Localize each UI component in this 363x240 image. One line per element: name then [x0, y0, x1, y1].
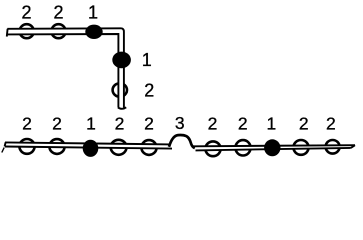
filled bead 1 (bottom 3) [83, 140, 99, 157]
kink 3 (bump) [169, 135, 195, 148]
top chain rod with elbow [7, 28, 126, 109]
svg-text:2: 2 [115, 113, 125, 133]
bottom chain left rod [2, 142, 172, 152]
bottom right rod white channel [193, 145, 356, 150]
filled bead 1 (vertical rod) [112, 52, 131, 69]
svg-text:3: 3 [175, 113, 185, 133]
open bead 2 (bottom 5) [141, 140, 156, 155]
open bead 2 (bottom 10) [326, 140, 340, 154]
open bead 2 (bottom 1) [19, 139, 34, 154]
svg-text:2: 2 [22, 113, 32, 133]
svg-text:2: 2 [299, 113, 309, 133]
open bead 2 (bottom 2) [49, 139, 64, 154]
bottom left rod white channel [5, 142, 172, 148]
svg-text:2: 2 [144, 81, 154, 101]
bottom chain right rod [193, 145, 356, 150]
open bead 2 (bottom 6) [205, 141, 220, 156]
open bead 2 (top row, second) [51, 24, 65, 38]
svg-text:1: 1 [267, 113, 277, 133]
svg-text:1: 1 [88, 3, 98, 23]
open bead 2 (top row, first) [20, 24, 34, 38]
svg-text:2: 2 [326, 113, 336, 133]
svg-text:2: 2 [144, 113, 154, 133]
open bead 2 (vertical rod) [113, 83, 127, 96]
svg-text:2: 2 [53, 3, 63, 23]
filled bead 1 (bottom 8) [264, 139, 280, 156]
svg-text:1: 1 [142, 50, 152, 70]
top rod white channel [7, 28, 124, 107]
open bead 2 (bottom 9) [293, 140, 308, 155]
svg-text:1: 1 [86, 113, 96, 133]
filled bead 1 (top row) [85, 25, 102, 39]
svg-text:2: 2 [52, 113, 62, 133]
open bead 2 (bottom 4) [111, 140, 127, 155]
svg-text:2: 2 [208, 113, 218, 133]
open bead 2 (bottom 7) [235, 140, 250, 155]
svg-text:2: 2 [21, 3, 31, 23]
svg-text:2: 2 [238, 113, 248, 133]
